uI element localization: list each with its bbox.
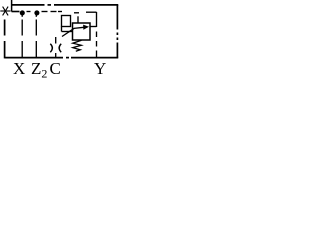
pilot line (horizontal, partly dashed): [12, 12, 97, 13]
X port dashed line: [21, 14, 23, 58]
junction dot on X branch: [20, 10, 25, 15]
label C: [50, 59, 61, 79]
port B stub line exiting top-left: [11, 0, 13, 12]
pilot valve small square: [62, 16, 71, 27]
enclosure right border (dashed): [116, 5, 118, 58]
junction dot on Z2 branch: [34, 10, 39, 15]
main valve square: [73, 23, 91, 40]
flow arrow through valve: [62, 25, 89, 37]
step link from small square to main valve inlet: [62, 27, 73, 32]
orifice (restrictor) on C line: [50, 44, 61, 52]
spring below main valve: [73, 40, 82, 51]
Z2 port dashed line: [35, 14, 37, 58]
C port dashed line through orifice: [55, 37, 57, 58]
asterisk footnote symbol: [0, 7, 10, 16]
label Y: [94, 59, 106, 79]
valve outlet stub to the right: [90, 26, 97, 28]
Y line vertical (solid upper, dashed lower): [96, 12, 98, 58]
pilot drop dash into main valve top: [77, 16, 79, 23]
enclosure left border (dashed): [4, 20, 6, 59]
enclosure bottom border (dashed): [5, 57, 119, 59]
enclosure top border (dashed): [12, 4, 119, 6]
label Z2: [31, 59, 47, 82]
label X: [13, 59, 25, 79]
